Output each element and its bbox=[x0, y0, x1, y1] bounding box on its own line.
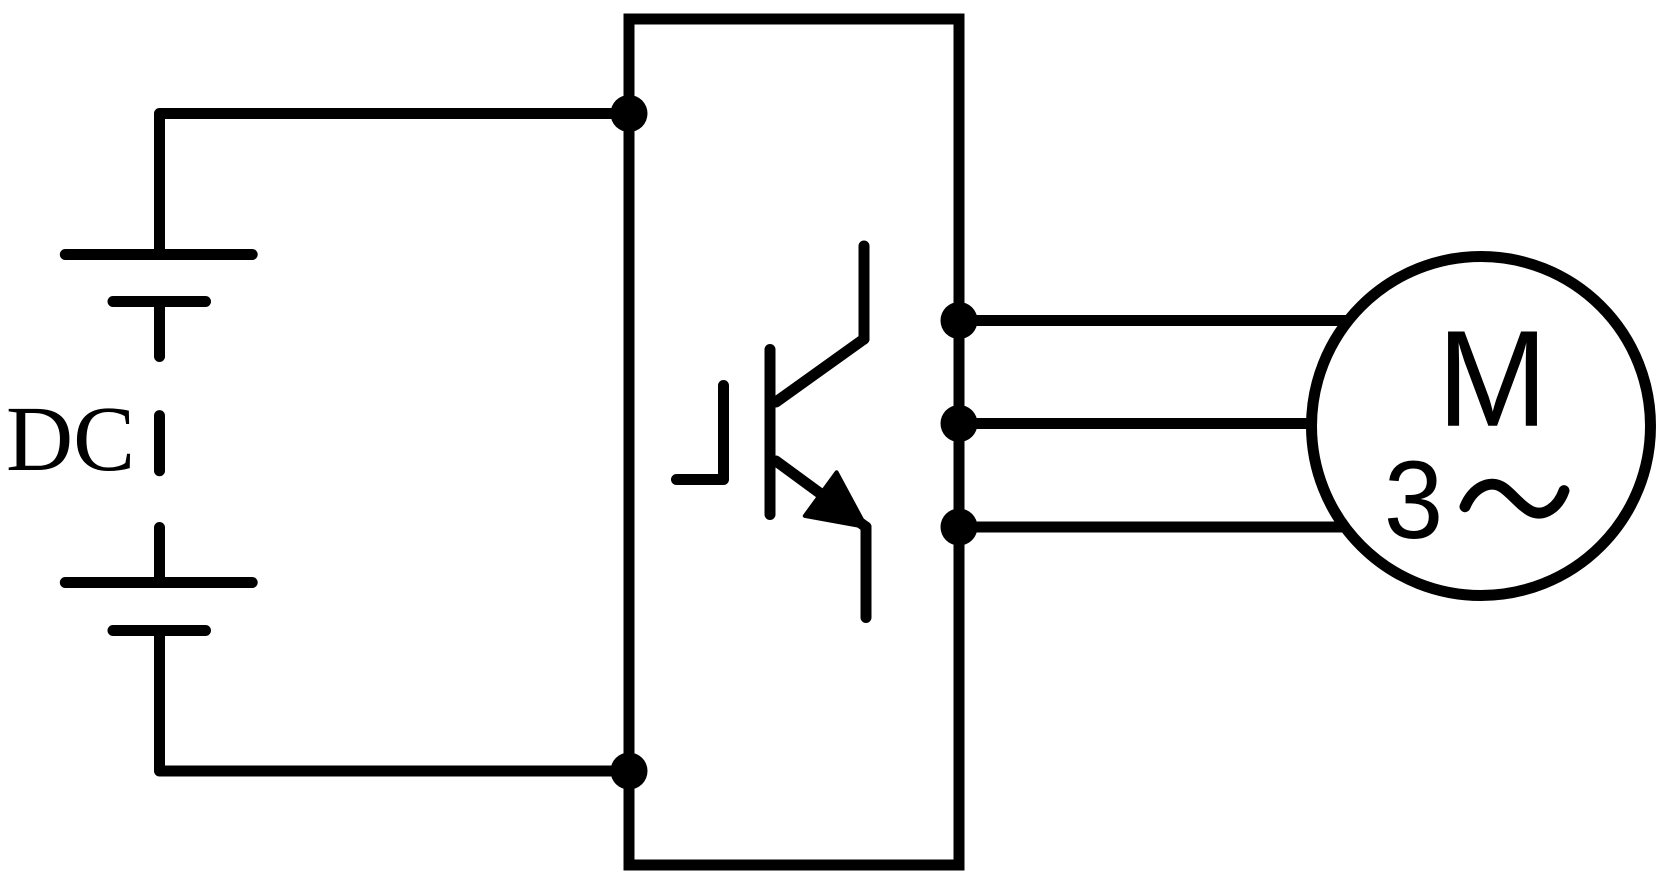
AC tilde symbol bbox=[1465, 484, 1564, 513]
motor M1 body circle bbox=[1312, 257, 1651, 596]
transistor Q1 emitter diagonal bbox=[776, 461, 866, 527]
battery B1 short plate bbox=[113, 296, 206, 307]
wire phase V bbox=[959, 418, 1400, 429]
transistor Q1 emitter lead bbox=[861, 527, 872, 618]
wire battery positive to inverter input bbox=[160, 114, 630, 255]
label M bbox=[1437, 302, 1548, 455]
wire B1 stub bbox=[154, 302, 165, 357]
wire battery negative to inverter input bbox=[160, 631, 630, 772]
battery B1 long plate bbox=[65, 249, 252, 260]
inverter box U1 bbox=[629, 19, 959, 865]
node V junction dot bbox=[941, 405, 978, 442]
battery dashed link bbox=[154, 416, 165, 471]
svg-text:3: 3 bbox=[1384, 439, 1443, 562]
wire phase W bbox=[959, 522, 1400, 533]
transistor Q1 collector diagonal bbox=[776, 339, 864, 402]
svg-text:DC: DC bbox=[6, 388, 135, 491]
node U junction dot bbox=[941, 302, 978, 339]
node DC- junction dot bbox=[611, 753, 648, 790]
wire phase U bbox=[959, 315, 1400, 326]
transistor Q1 emitter arrowhead bbox=[805, 472, 866, 527]
wire B2 stub bbox=[154, 528, 165, 583]
svg-text:M: M bbox=[1437, 302, 1548, 455]
battery B2 short plate bbox=[113, 625, 206, 636]
battery B2 long plate bbox=[65, 577, 252, 588]
node W junction dot bbox=[941, 509, 978, 546]
node DC+ junction dot bbox=[611, 95, 648, 132]
transistor Q1 body bar bbox=[765, 350, 776, 515]
label 3 bbox=[1384, 439, 1443, 562]
transistor Q1 gate bar and lead bbox=[677, 386, 724, 480]
transistor Q1 collector lead bbox=[859, 246, 870, 339]
